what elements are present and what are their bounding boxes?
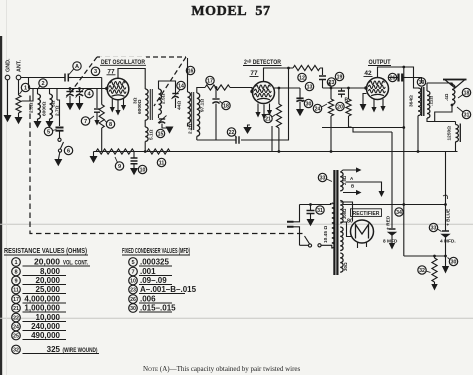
label 30b — [449, 257, 457, 265]
ground — [115, 110, 120, 116]
svg-text:97.1Ω: 97.1Ω — [200, 99, 206, 112]
capacitor C31 line — [310, 205, 312, 211]
svg-text:10: 10 — [130, 278, 136, 284]
ground — [261, 114, 266, 120]
svg-text:6: 6 — [67, 148, 70, 154]
svg-text:15: 15 — [158, 131, 164, 137]
wire v2 cathode — [248, 125, 251, 127]
wire tone line — [389, 78, 422, 84]
capacitor C8mfd — [389, 229, 396, 235]
wire grid top line — [21, 77, 102, 79]
svg-text:5.1Ω: 5.1Ω — [149, 129, 155, 140]
svg-text:4 MFD.: 4 MFD. — [440, 239, 456, 245]
svg-text:18: 18 — [464, 90, 470, 96]
svg-text:4,000,000: 4,000,000 — [24, 295, 60, 304]
svg-text:4: 4 — [87, 91, 91, 97]
wire rect output — [343, 204, 446, 206]
capacitor C18 — [215, 88, 217, 99]
svg-text:364Ω: 364Ω — [409, 95, 415, 107]
coil T2 primary — [145, 89, 148, 120]
transformer T5 core — [334, 170, 337, 275]
svg-text:2.2Ω: 2.2Ω — [188, 123, 194, 134]
label 12 — [298, 73, 306, 81]
speaker horn — [445, 80, 465, 89]
label 14 — [177, 81, 185, 89]
ground — [110, 107, 115, 113]
coil T4 secondary — [427, 91, 430, 118]
wire v2 plate top — [264, 68, 294, 82]
ground — [166, 127, 174, 134]
resistor R32 — [434, 256, 436, 258]
ground — [46, 121, 54, 128]
svg-text:1: 1 — [24, 85, 27, 91]
capacitor CA series — [65, 74, 68, 82]
svg-text:240,000: 240,000 — [31, 322, 60, 331]
svg-text:31: 31 — [464, 112, 470, 118]
wire v2 pins — [258, 104, 270, 115]
arrow heater2 — [356, 190, 362, 195]
label 19 — [335, 72, 343, 80]
svg-text:42: 42 — [364, 70, 372, 77]
svg-text:2: 2 — [41, 81, 44, 87]
capacitor C10 — [133, 152, 135, 159]
svg-text:A: A — [75, 64, 79, 70]
label 33 — [318, 173, 326, 181]
capacitor C7 — [94, 108, 100, 110]
ground — [66, 103, 74, 110]
svg-text:20,000: 20,000 — [36, 276, 61, 285]
label 9 — [115, 162, 123, 170]
svg-text:10.45 Ω: 10.45 Ω — [323, 226, 329, 243]
wire diode plate — [274, 87, 300, 89]
coil T5 sec4 — [340, 253, 343, 272]
wire v3 plate — [378, 67, 419, 88]
resistor R24 — [330, 88, 332, 99]
wire tuning cap stubs — [70, 89, 80, 92]
svg-text:77: 77 — [250, 70, 258, 77]
svg-text:30Ω: 30Ω — [343, 262, 348, 271]
dashed link volume-switch — [30, 96, 303, 234]
wire coil bottoms — [38, 94, 60, 126]
svg-text:26: 26 — [130, 297, 136, 303]
svg-text:33: 33 — [431, 225, 437, 231]
svg-text:.006: .006 — [140, 295, 156, 304]
wire coil top bus — [29, 78, 108, 95]
transformer T2 core — [150, 89, 152, 120]
svg-text:19: 19 — [337, 74, 343, 80]
svg-text:.015–.015: .015–.015 — [140, 304, 176, 313]
svg-text:32: 32 — [13, 347, 19, 353]
ground — [93, 152, 95, 157]
svg-text:3: 3 — [94, 69, 97, 75]
label 6 — [64, 146, 72, 154]
svg-text:6000Ω: 6000Ω — [42, 101, 48, 116]
ground — [76, 103, 84, 110]
capacitor C23B — [341, 88, 343, 91]
svg-text:A–.001–B–.015: A–.001–B–.015 — [140, 285, 197, 294]
ground — [4, 115, 12, 122]
capacitor C26 series — [399, 74, 403, 82]
dashed boundary left diagonal — [70, 57, 97, 93]
capacitor C15 trimmer — [159, 118, 165, 120]
transformer T4 core — [422, 87, 424, 116]
coil voice — [452, 85, 455, 105]
svg-text:5: 5 — [131, 260, 134, 266]
svg-text:.09–.09: .09–.09 — [140, 276, 167, 285]
ground — [15, 117, 23, 124]
svg-text:7: 7 — [84, 119, 87, 125]
svg-text:23: 23 — [329, 80, 335, 86]
svg-text:30: 30 — [306, 101, 312, 107]
tube V1 77 — [107, 78, 129, 100]
coil L3 osc 5.1ohm — [145, 127, 148, 141]
svg-text:20: 20 — [337, 104, 343, 110]
resistor R21 — [276, 104, 281, 128]
label 3 — [91, 67, 99, 75]
svg-text:2.5Ω: 2.5Ω — [161, 93, 167, 104]
label 22 — [227, 128, 235, 136]
switch S1 contact — [58, 138, 61, 141]
label 5 — [44, 127, 52, 135]
svg-text:30: 30 — [130, 306, 136, 312]
svg-text:8: 8 — [109, 122, 112, 128]
svg-text:1250Ω: 1250Ω — [447, 126, 453, 141]
wire main bus — [94, 151, 458, 153]
svg-text:2.5Ω: 2.5Ω — [342, 175, 347, 185]
wire voice leads — [427, 83, 452, 85]
label A — [73, 62, 81, 70]
dashed boundary top — [97, 56, 186, 58]
resistor R13 — [293, 65, 320, 70]
resistor R1 volume control — [16, 95, 21, 113]
dashed boundary right diagonal — [154, 57, 186, 106]
wire output grid line — [323, 87, 367, 89]
svg-text:17: 17 — [13, 297, 19, 303]
svg-text:44Ω: 44Ω — [177, 101, 183, 110]
svg-text:25: 25 — [13, 333, 19, 339]
capacitor C14 padder — [172, 93, 178, 95]
plug P1 — [287, 222, 294, 227]
resistor R25 — [348, 88, 350, 99]
coil T5 sec3 — [340, 227, 343, 250]
wire heater arrows — [341, 170, 382, 193]
wire v3 pins — [374, 99, 383, 107]
coil L1 primary — [38, 94, 41, 119]
svg-text:21: 21 — [265, 116, 271, 122]
coil T4 primary — [418, 88, 421, 116]
wire down arrow — [445, 256, 447, 266]
svg-text:30: 30 — [451, 259, 457, 265]
svg-text:24: 24 — [315, 106, 321, 112]
svg-text:31: 31 — [317, 208, 323, 214]
ground — [371, 107, 376, 113]
svg-text:.001: .001 — [140, 267, 156, 276]
svg-text:(WIRE WOUND): (WIRE WOUND) — [63, 347, 98, 354]
capacitor C22 series — [236, 136, 239, 144]
svg-text:B: B — [351, 184, 355, 189]
label 20 — [336, 102, 344, 110]
wire t3 bottoms — [188, 123, 197, 140]
coil field 1250 — [456, 125, 459, 142]
svg-text:13: 13 — [307, 84, 313, 90]
capacitor C5 — [56, 128, 64, 131]
coil T2 secondary — [159, 89, 162, 114]
wire t3 top lead — [187, 58, 189, 92]
label 11 — [157, 158, 165, 166]
svg-text:19: 19 — [419, 80, 425, 86]
svg-text:6000Ω: 6000Ω — [137, 99, 143, 114]
svg-text:11: 11 — [13, 287, 19, 293]
svg-text:305Ω: 305Ω — [342, 208, 347, 219]
label 31 — [316, 206, 324, 214]
label 16 — [186, 66, 194, 74]
label 15 — [156, 129, 164, 137]
label 2 — [39, 79, 47, 87]
svg-text:8,000: 8,000 — [40, 267, 61, 276]
svg-text:14: 14 — [178, 83, 184, 89]
label 34 — [395, 208, 403, 216]
coil T5 primary — [332, 203, 335, 248]
switch S2 — [308, 244, 311, 247]
svg-text:12: 12 — [299, 75, 305, 81]
label 21 — [264, 114, 272, 122]
svg-text:5: 5 — [47, 129, 50, 135]
label 7 — [81, 117, 89, 125]
svg-text:80: 80 — [347, 219, 353, 225]
resistor R9 — [96, 149, 134, 154]
svg-text:25,000: 25,000 — [36, 285, 61, 294]
ground — [267, 110, 272, 116]
coil T3 secondary — [197, 93, 200, 136]
svg-text:DET OSCILLATOR: DET OSCILLATOR — [101, 59, 145, 66]
wire v1 plate to T2 — [118, 69, 145, 90]
wire coupling — [320, 68, 323, 75]
wire t2 sec bottom — [158, 115, 160, 119]
wire grid chain — [197, 88, 205, 94]
svg-text:MODEL 57: MODEL 57 — [191, 4, 270, 19]
wire blue rail — [445, 152, 447, 232]
label 18 — [222, 101, 230, 109]
label 24 — [313, 104, 321, 112]
svg-text:.4Ω: .4Ω — [444, 93, 449, 101]
wire t2 sec top — [159, 81, 176, 89]
arrow heater3 — [379, 191, 385, 197]
svg-text:FIXED CONDENSER VALUES (MFD): FIXED CONDENSER VALUES (MFD) — [122, 246, 190, 255]
label 17 — [206, 76, 214, 84]
transformer T3 core — [192, 92, 194, 130]
svg-text:ANT.: ANT. — [17, 60, 23, 72]
svg-text:A: A — [350, 176, 354, 181]
label 23 — [327, 78, 335, 86]
svg-text:21: 21 — [13, 306, 19, 312]
coil T3 primary — [188, 92, 191, 123]
capacitor C-tune1 — [66, 91, 73, 93]
wire r17 to grid — [230, 88, 252, 91]
coil T5 sec2 — [340, 201, 343, 224]
svg-text:1,000,000: 1,000,000 — [24, 304, 60, 313]
svg-text:18: 18 — [223, 103, 229, 109]
switch S1 contact2 — [58, 149, 61, 152]
capacitor C4mfd — [442, 231, 449, 237]
svg-text:2ⁿᴰ DETECTOR: 2ⁿᴰ DETECTOR — [244, 59, 281, 66]
tube V2 77 — [253, 82, 275, 104]
label 10 — [138, 165, 146, 173]
svg-text:17: 17 — [207, 78, 213, 84]
svg-text:VOL. CONT.: VOL. CONT. — [63, 260, 88, 267]
label 33b — [429, 223, 437, 231]
svg-text:9: 9 — [118, 164, 121, 170]
label 32 — [418, 266, 426, 274]
wire primary top — [300, 203, 331, 205]
wire rect bottom — [358, 243, 367, 249]
svg-text:20,000: 20,000 — [34, 258, 61, 267]
arrow heater1 — [356, 167, 362, 172]
label 30 — [304, 99, 312, 107]
tube V4 80 rectifier — [351, 220, 374, 243]
wire avc line — [197, 68, 289, 140]
label 18b — [462, 88, 470, 96]
svg-text:34: 34 — [396, 210, 402, 216]
svg-text:8: 8 — [14, 269, 17, 275]
wire wiper — [22, 89, 34, 102]
ground — [255, 112, 260, 118]
svg-text:RECTIFIER: RECTIFIER — [353, 211, 380, 217]
svg-text:OUTPUT: OUTPUT — [369, 59, 391, 66]
switch S1 lever — [60, 142, 63, 149]
resistor R17 — [205, 85, 230, 90]
svg-text:24: 24 — [13, 324, 19, 330]
ground — [54, 159, 62, 166]
svg-text:325: 325 — [47, 345, 61, 354]
wire gnd lead — [7, 80, 9, 115]
wire field leads — [455, 122, 457, 152]
svg-text:26: 26 — [390, 75, 396, 81]
label 13 — [305, 82, 313, 90]
coil L2 secondary — [50, 94, 53, 119]
svg-text:8 MFD: 8 MFD — [383, 239, 398, 245]
svg-text:23: 23 — [130, 287, 136, 293]
ground — [34, 121, 42, 128]
svg-text:GND.: GND. — [6, 58, 12, 72]
coil T5 sec1 — [340, 172, 343, 191]
svg-text:+ BLUE: + BLUE — [446, 208, 452, 226]
svg-text:22: 22 — [13, 315, 19, 321]
svg-text:33: 33 — [320, 175, 326, 181]
wire v2 to bus — [271, 126, 273, 152]
wire t4 leads — [418, 83, 456, 152]
ground — [380, 106, 385, 112]
svg-text:490,000: 490,000 — [31, 331, 60, 340]
ground — [121, 105, 126, 111]
svg-text:RESISTANCE VALUES (OHMS): RESISTANCE VALUES (OHMS) — [4, 246, 87, 255]
label 19b — [417, 78, 425, 86]
svg-text:10: 10 — [140, 167, 146, 173]
wire v3 cathode — [363, 94, 367, 105]
resistor R8 cathode — [101, 78, 103, 105]
wire screen rail — [391, 132, 393, 228]
capacitor C23A — [319, 76, 326, 80]
resistor R11 — [147, 149, 170, 154]
svg-text:16: 16 — [188, 68, 194, 74]
label 8 — [106, 120, 114, 128]
label 31b — [462, 110, 470, 118]
capacitor C-tune2 — [76, 91, 83, 93]
wire v1 pins — [112, 99, 123, 111]
svg-text:+ RED: + RED — [386, 215, 392, 230]
svg-text:7: 7 — [131, 269, 134, 275]
label DET OSCILLATOR — [100, 57, 146, 66]
svg-text:11: 11 — [159, 160, 165, 166]
svg-text:22: 22 — [229, 130, 235, 136]
wire b+ rail — [403, 67, 405, 256]
svg-text:32: 32 — [419, 268, 425, 274]
svg-text:NOTE (A)—This capacity obtaine: NOTE (A)—This capacity obtained by pair … — [143, 365, 301, 373]
wire v1 grid return — [97, 89, 107, 109]
svg-text:.000325: .000325 — [140, 258, 169, 267]
wire hv leads — [341, 202, 353, 237]
svg-text:9: 9 — [14, 278, 17, 284]
svg-text:1: 1 — [14, 260, 17, 266]
wire screen-b+ link — [322, 127, 404, 129]
capacitor C30 — [299, 88, 301, 98]
wire screen feed — [353, 128, 392, 133]
svg-text:.11Ω: .11Ω — [429, 96, 435, 106]
tube V3 42 — [367, 78, 389, 100]
label 4 — [85, 89, 93, 97]
svg-text:10,000: 10,000 — [36, 313, 61, 322]
label 1 — [21, 83, 29, 91]
wire bminus bus — [404, 255, 446, 257]
wire ant lead — [19, 78, 29, 118]
label 26 — [388, 73, 396, 81]
